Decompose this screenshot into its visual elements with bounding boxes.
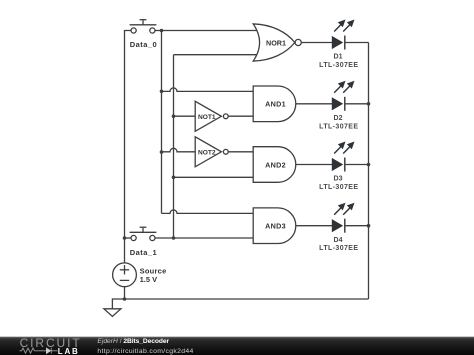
CircuitLab logo: [20, 336, 82, 355]
svg-text:D2: D2: [334, 115, 343, 122]
svg-text:http://circuitlab.com/cgk2d44: http://circuitlab.com/cgk2d44: [97, 348, 193, 355]
svg-text:AND3: AND3: [265, 221, 286, 230]
LED D2: [332, 81, 369, 111]
AND gate AND1: [253, 86, 296, 122]
wire rail B vertical (Data_1 net): [173, 55, 175, 238]
node rail A / AND1 input: [160, 90, 164, 94]
wire right rail vertical: [368, 43, 370, 300]
wire source bottom to ground junction: [124, 287, 126, 299]
wire bottom return (junction to right rail): [125, 298, 369, 300]
svg-text:D1: D1: [334, 54, 343, 61]
AND gate AND2: [253, 147, 296, 183]
svg-text:1.5 V: 1.5 V: [140, 275, 158, 284]
footer bar: [0, 337, 474, 355]
NOT gate NOT2: [195, 137, 228, 167]
wire NOR1 output to LED D1: [301, 42, 332, 44]
wire rail B to AND2 input B: [174, 176, 254, 178]
node Data_0 at switch output: [160, 29, 164, 33]
wire Data_0 to NOR1 input A (y=30): [155, 30, 257, 32]
svg-text:LTL-307EE: LTL-307EE: [319, 184, 358, 191]
svg-text:NOR1: NOR1: [266, 38, 286, 47]
wire junction to ground symbol: [112, 299, 124, 309]
node right rail at D4: [367, 224, 371, 228]
NOR gate NOR1: [253, 24, 301, 61]
node left rail at Data_1: [123, 236, 127, 240]
ground: [104, 309, 121, 317]
wire rail A end to AND3 input A with hop over rail B: [162, 210, 254, 214]
svg-text:Data_0: Data_0: [130, 40, 157, 49]
wire AND1 output to LED D2: [296, 103, 332, 105]
wire rail B to NOT1 input: [174, 115, 196, 117]
wire rail B top to NOR1 input B (y=55): [174, 54, 258, 56]
voltage source V1: [113, 263, 137, 287]
svg-text:D3: D3: [334, 176, 343, 183]
svg-text:NOT2: NOT2: [198, 150, 216, 157]
svg-text:D4: D4: [334, 237, 343, 244]
wire AND2 output to LED D3: [296, 164, 332, 166]
wire AND3 output to LED D4: [296, 225, 332, 227]
svg-text:LTL-307EE: LTL-307EE: [319, 123, 358, 130]
wire left rail from Data_0 left terminal down to Data_1 and source: [125, 31, 132, 264]
svg-text:NOT1: NOT1: [198, 114, 216, 121]
svg-text:Data_1: Data_1: [130, 248, 157, 257]
switch SW Data_0: [130, 20, 157, 33]
NOT gate NOT1: [195, 101, 228, 131]
node rail B / AND2 input: [172, 176, 176, 180]
LED D4: [332, 203, 369, 233]
node right rail at D3: [367, 163, 371, 167]
wire NOT2 output to AND2 input A: [228, 151, 253, 153]
LED D1: [332, 20, 369, 50]
node rail B at Data_1 wire: [172, 236, 176, 240]
switch SW Data_1: [130, 227, 157, 240]
LED D3: [332, 142, 369, 172]
svg-text:LTL-307EE: LTL-307EE: [319, 245, 358, 252]
wire Data_1 left terminal stub: [125, 237, 132, 239]
AND gate AND3: [253, 208, 296, 244]
node right rail at D2: [367, 102, 371, 106]
wire rail A vertical (Data_0 net): [161, 31, 163, 214]
wire NOT1 output to AND1 input B: [228, 115, 253, 117]
svg-text:LAB: LAB: [58, 347, 80, 355]
svg-text:AND2: AND2: [265, 160, 286, 169]
wire rail A to NOT2 input with hop over rail B: [162, 148, 196, 151]
node rail A / NOT2 input: [160, 150, 164, 154]
node source bottom junction: [123, 297, 127, 301]
svg-text:EjderH / 2Bits_Decoder: EjderH / 2Bits_Decoder: [97, 338, 169, 345]
wire rail A to AND1 input A with hop over rail B: [162, 88, 254, 92]
svg-text:LTL-307EE: LTL-307EE: [319, 62, 358, 69]
wire Data_1 to AND3 input B (y=238): [155, 237, 253, 239]
svg-text:AND1: AND1: [265, 100, 286, 109]
node rail B / NOT1 input: [172, 114, 176, 118]
